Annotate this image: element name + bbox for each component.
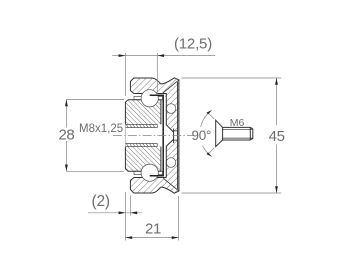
svg-text:M8x1,25: M8x1,25 <box>79 123 123 135</box>
svg-text:M6: M6 <box>230 117 245 129</box>
svg-text:(12,5): (12,5) <box>174 36 212 53</box>
svg-text:(2): (2) <box>92 193 110 210</box>
svg-text:45: 45 <box>269 128 285 145</box>
svg-text:21: 21 <box>145 221 161 238</box>
svg-text:90°: 90° <box>192 128 212 143</box>
svg-text:28: 28 <box>58 127 74 144</box>
